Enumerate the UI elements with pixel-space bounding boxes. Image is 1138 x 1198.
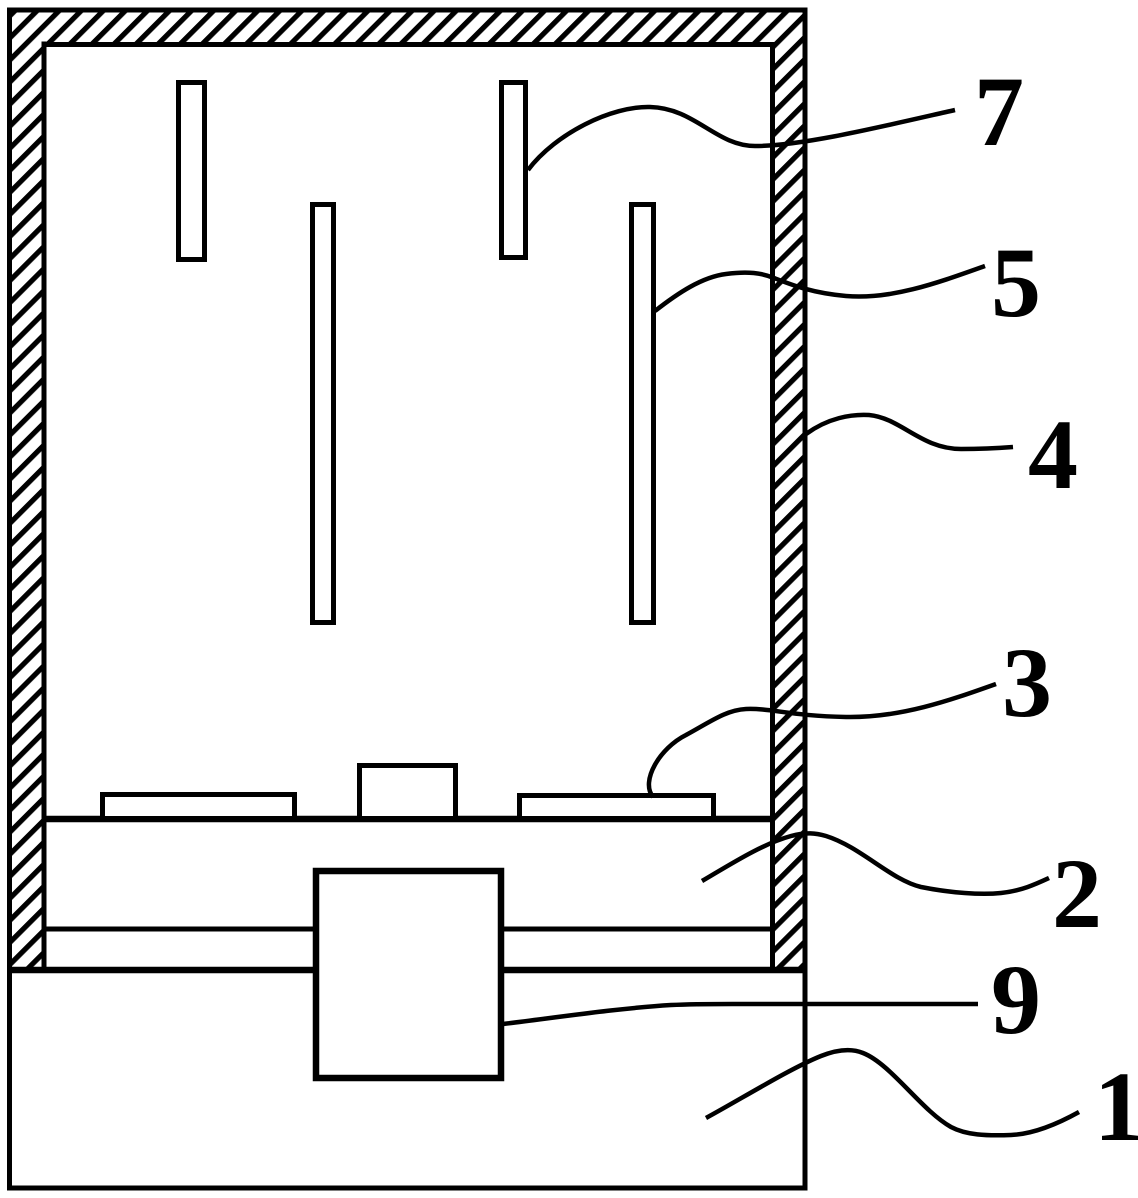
leader line 7: [528, 107, 955, 170]
leader line 4: [806, 415, 1013, 449]
shelf plate line: [44, 816, 775, 823]
long hanging plate left: [313, 205, 334, 623]
svg-text:9: 9: [991, 944, 1041, 1055]
svg-text:2: 2: [1052, 838, 1102, 949]
intermediate plate line left segment: [44, 927, 316, 932]
leader line 2: [702, 833, 1049, 893]
outer housing and base outline: [10, 10, 806, 1188]
label 3: [1002, 627, 1052, 738]
label 9: [991, 944, 1041, 1055]
svg-text:7: 7: [974, 56, 1024, 167]
svg-text:4: 4: [1028, 399, 1078, 510]
label 4: [1028, 399, 1078, 510]
label 2: [1052, 838, 1102, 949]
hatched left wall of housing: [10, 10, 44, 970]
leader line 5: [655, 266, 985, 311]
short hanging plate 7: [502, 83, 526, 258]
long hanging plate 5: [632, 205, 654, 623]
hatched top wall of housing: [10, 10, 804, 44]
motor box 9: [316, 871, 501, 1078]
svg-text:3: 3: [1002, 627, 1052, 738]
inner wall edge top: [42, 42, 776, 47]
intermediate plate line right segment: [501, 927, 772, 932]
right block on shelf 3: [520, 796, 714, 819]
svg-text:1: 1: [1094, 1051, 1138, 1162]
inner wall edge left: [42, 42, 47, 970]
leader line 3: [649, 684, 996, 797]
base top line right segment: [501, 967, 807, 974]
hatched right wall of housing 4: [770, 10, 804, 970]
label 1: [1094, 1051, 1138, 1162]
middle block on shelf: [360, 766, 456, 819]
label 7: [974, 56, 1024, 167]
label 5: [991, 227, 1041, 338]
base top line left segment: [7, 967, 316, 974]
svg-text:5: 5: [991, 227, 1041, 338]
leader line 1: [706, 1050, 1079, 1135]
short hanging plate top-left: [179, 83, 205, 260]
left block on shelf: [103, 795, 295, 819]
leader line 9: [503, 1004, 978, 1024]
inner wall edge right: [770, 42, 775, 969]
